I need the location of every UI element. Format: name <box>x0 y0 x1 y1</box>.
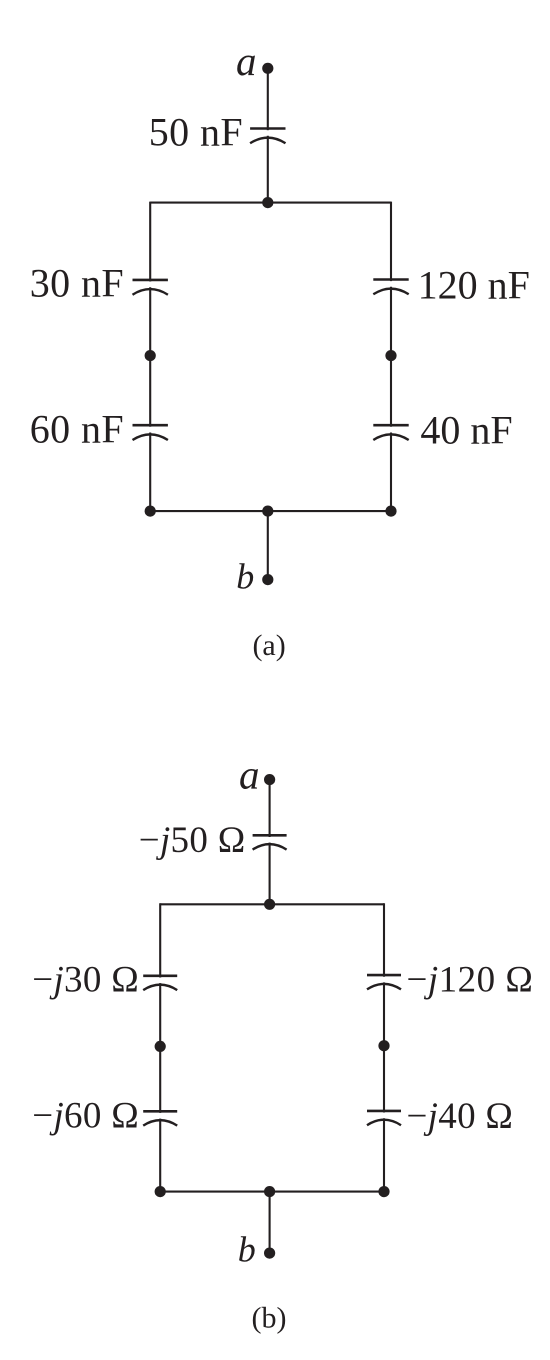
bottom-right junction dot (circuit a) <box>385 506 396 517</box>
bottom-left junction dot (circuit b) <box>155 1186 166 1197</box>
capacitor C5 40nF plate <box>373 424 408 427</box>
wire mid-left node to 60nF <box>149 356 151 427</box>
wire -j40 to bottom rail right (circuit b) <box>383 1118 385 1191</box>
capacitor Z5 -j40 curved plate <box>367 1120 401 1126</box>
bottom-center junction dot (circuit b) <box>264 1186 275 1197</box>
capacitor C4 120nF plate <box>373 278 408 281</box>
wire 60nF to bottom rail left <box>149 433 151 512</box>
terminal a dot (circuit a) <box>262 63 273 74</box>
wire 120nF to mid-right node <box>390 287 392 356</box>
left branch wire upper (circuit b) <box>159 903 161 977</box>
wire mid-right node to 40nF <box>390 356 392 427</box>
top rail wire (circuit b) <box>160 903 384 905</box>
svg-text:a: a <box>236 38 257 84</box>
capacitor Z3 -j60 plate <box>143 1110 177 1113</box>
capacitor C2 30nF curved plate <box>133 289 168 295</box>
terminal b dot (circuit b) <box>264 1248 275 1259</box>
capacitor Z3 -j60 curved plate <box>143 1120 177 1126</box>
right branch wire upper (circuit a) <box>390 202 392 282</box>
capacitor C3 60nF curved plate <box>133 434 168 440</box>
wire -j50 to top rail <box>269 843 271 905</box>
svg-text:(a): (a) <box>252 629 285 662</box>
capacitor C1 50nF curved plate <box>250 138 285 144</box>
wire 40nF to bottom rail right <box>390 433 392 512</box>
wire -j30 to mid-left node (circuit b) <box>159 983 161 1047</box>
svg-text:(b): (b) <box>252 1301 287 1334</box>
wire bottom rail to terminal b (circuit a) <box>267 511 269 579</box>
svg-text:−j30 Ω: −j30 Ω <box>32 959 139 1000</box>
wire terminal a to capacitor -j50 <box>269 780 271 837</box>
bottom-left junction dot (circuit a) <box>145 506 156 517</box>
svg-text:a: a <box>239 751 260 797</box>
svg-text:60 nF: 60 nF <box>30 406 124 451</box>
wire mid-left node to -j60 <box>159 1046 161 1113</box>
capacitor C4 120nF curved plate <box>373 289 408 295</box>
wire from terminal a to capacitor 50nF <box>267 68 269 130</box>
capacitor Z2 -j30 plate <box>143 974 177 977</box>
bottom rail wire (circuit a) <box>150 510 391 512</box>
svg-text:30 nF: 30 nF <box>30 260 124 305</box>
capacitor C5 40nF curved plate <box>373 434 408 440</box>
wire 30nF to mid-left node <box>149 287 151 356</box>
capacitor Z5 -j40 plate <box>367 1110 401 1113</box>
junction dot top center (circuit a) <box>262 197 273 208</box>
junction dot top center (circuit b) <box>264 899 275 910</box>
left branch wire upper (circuit a) <box>149 202 151 282</box>
mid-left junction dot (circuit b) <box>155 1041 166 1052</box>
wire -j60 to bottom rail left (circuit b) <box>159 1119 161 1192</box>
wire bottom rail to terminal b (circuit b) <box>269 1192 271 1254</box>
capacitor C2 30nF plate <box>133 279 168 282</box>
terminal a dot (circuit b) <box>264 774 275 785</box>
capacitor Z1 -j50 curved plate <box>253 844 287 850</box>
svg-text:b: b <box>236 556 254 596</box>
capacitor Z4 -j120 curved plate <box>367 984 401 990</box>
wire -j120 to mid-right node (circuit b) <box>383 982 385 1046</box>
capacitor Z1 -j50 plate <box>253 834 287 837</box>
terminal b dot (circuit a) <box>262 574 273 585</box>
svg-text:50 nF: 50 nF <box>149 110 243 155</box>
bottom-center junction dot (circuit a) <box>262 506 273 517</box>
bottom rail wire (circuit b) <box>160 1191 384 1193</box>
svg-text:40 nF: 40 nF <box>420 408 512 453</box>
capacitor Z4 -j120 plate <box>367 974 401 977</box>
capacitor C3 60nF plate <box>133 424 168 427</box>
capacitor Z2 -j30 curved plate <box>143 985 177 991</box>
wire from capacitor 50nF to top rail <box>267 136 269 203</box>
bottom-right junction dot (circuit b) <box>378 1186 389 1197</box>
right branch wire upper (circuit b) <box>383 903 385 977</box>
wire mid-right node to -j40 <box>383 1046 385 1113</box>
mid-left junction dot (circuit a) <box>145 350 156 361</box>
svg-text:−j50 Ω: −j50 Ω <box>139 820 246 861</box>
capacitor C1 50nF plate <box>250 127 285 130</box>
svg-text:120 nF: 120 nF <box>418 263 530 308</box>
svg-text:−j60 Ω: −j60 Ω <box>32 1095 139 1136</box>
mid-right junction dot (circuit a) <box>385 350 396 361</box>
mid-right junction dot (circuit b) <box>378 1040 389 1051</box>
svg-text:−j40 Ω: −j40 Ω <box>407 1096 514 1137</box>
svg-text:−j120 Ω: −j120 Ω <box>407 960 534 1001</box>
top rail wire (circuit a) <box>150 202 391 204</box>
svg-text:b: b <box>238 1230 256 1270</box>
